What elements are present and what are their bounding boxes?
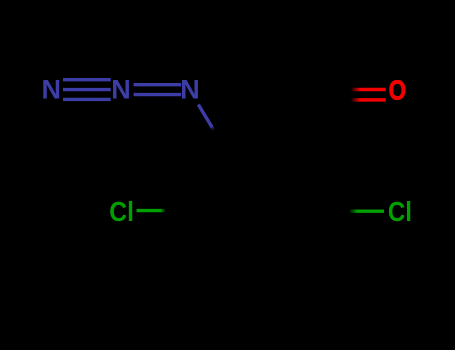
svg-text:N: N [41,75,61,105]
svg-text:Cl: Cl [388,195,412,227]
svg-text:N: N [180,75,200,105]
svg-text:Cl: Cl [109,195,134,227]
svg-text:O: O [389,75,406,106]
svg-text:N: N [111,75,131,105]
